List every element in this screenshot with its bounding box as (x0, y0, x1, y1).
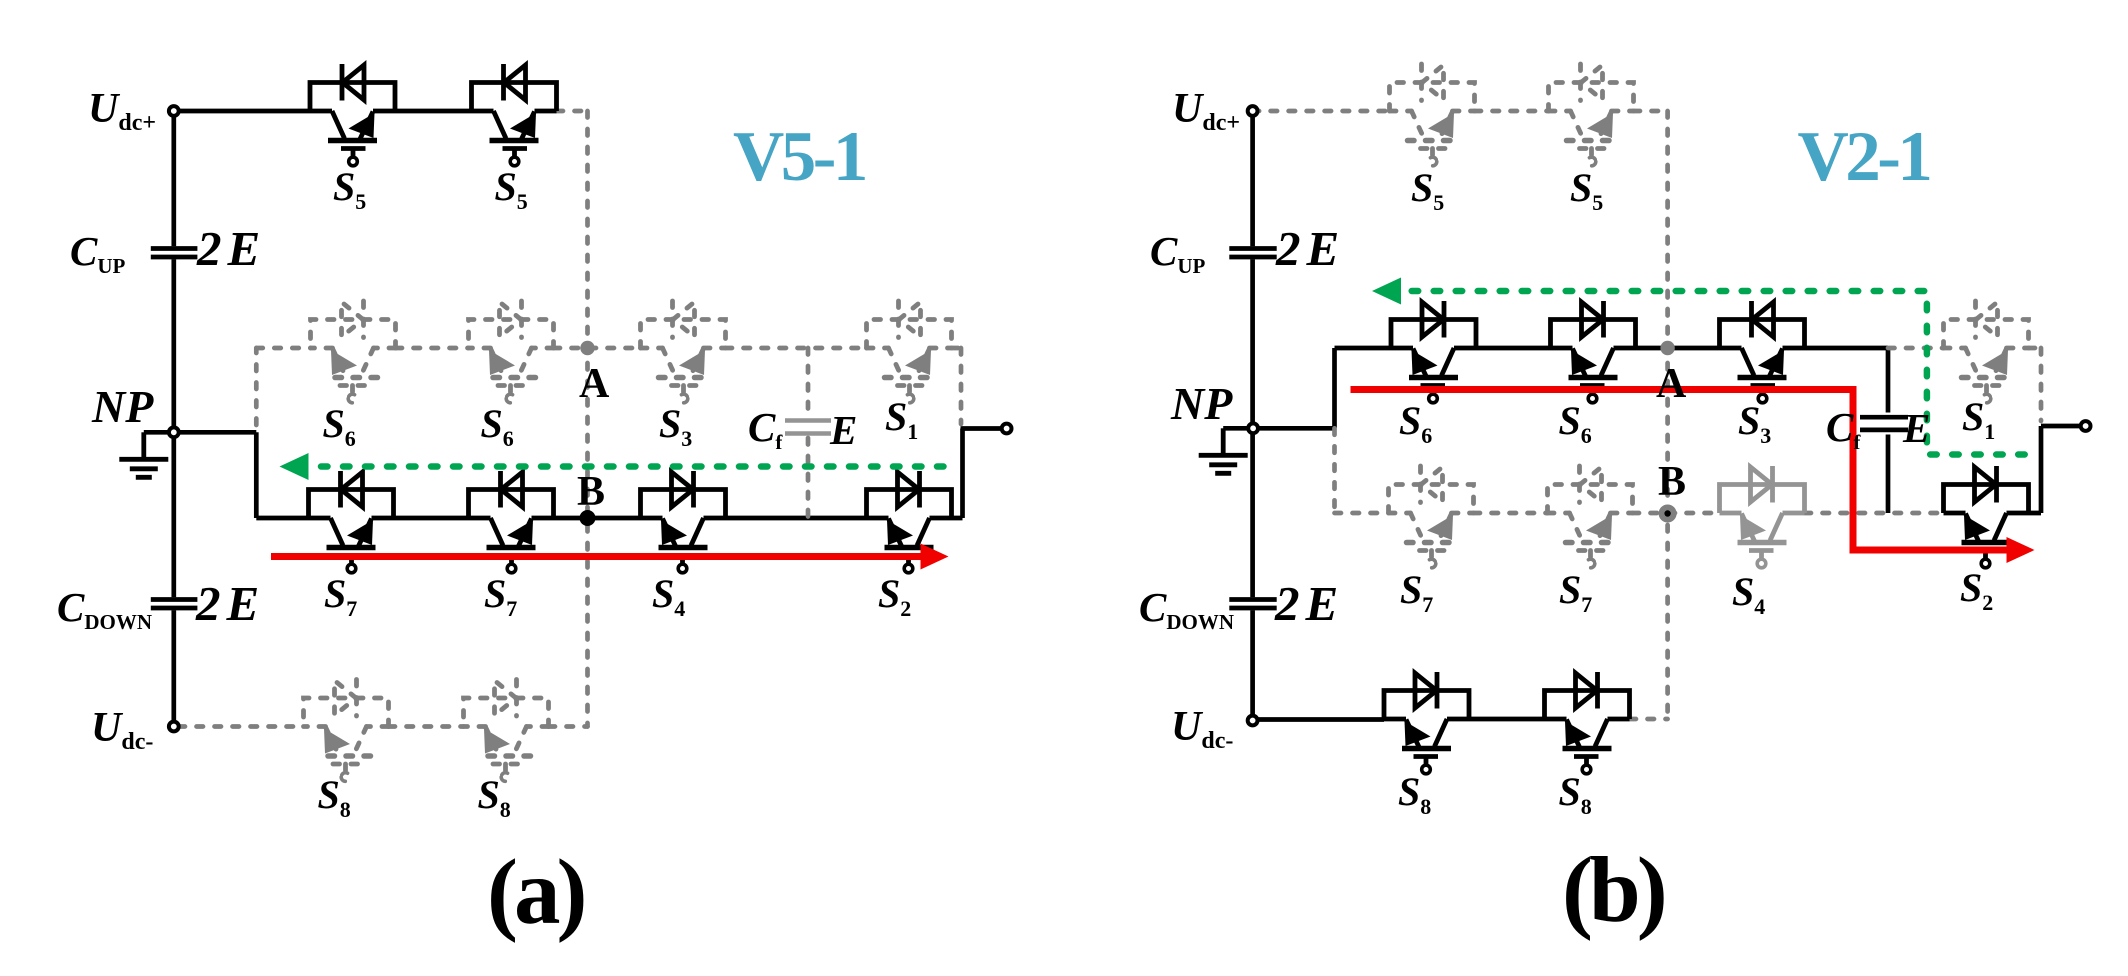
IGBT S8 #2 (a) (464, 680, 549, 782)
wire: bottom solid rail (b) (1253, 717, 1545, 722)
IGBT S6 #2 (a) (469, 301, 554, 403)
wire: left DC bus (a) (171, 111, 176, 721)
wire: A-row dashed rail to S1 (b) (1888, 348, 2041, 421)
terminal NP (b) (1248, 423, 1258, 433)
node B (a) (580, 510, 596, 526)
IGBT S5 #1 (b) (1390, 64, 1475, 166)
terminal Udc- (a) (169, 722, 179, 732)
IGBT S7 #1 (a) (309, 471, 394, 573)
capacitor C_UP (a) 2E (151, 249, 198, 258)
IGBT S8 #1 (a) (304, 680, 389, 782)
wire: A-row solid rail (b) (1335, 346, 1889, 351)
IGBT S7 #1 (b) (1389, 466, 1474, 568)
wire: NP node to ground stub and to riser (a) (144, 432, 256, 518)
svg-text:2E: 2E (1275, 221, 1345, 276)
capacitor C_UP (b) 2E (1229, 249, 1276, 258)
wire: top dashed rail (b) (1253, 109, 1668, 114)
capacitor C_DOWN (a) 2E (151, 600, 198, 609)
terminal output (b) (2081, 421, 2091, 431)
terminal output (a) (1002, 424, 1012, 434)
svg-text:(b): (b) (1562, 839, 1664, 942)
terminal Udc- (b) (1248, 716, 1258, 726)
IGBT S7 #2 (b) (1548, 466, 1633, 568)
wire: bottom dashed link to column (b) (1630, 717, 1668, 722)
IGBT S8 #2 (b) (1545, 672, 1630, 774)
svg-text:V2-1: V2-1 (1798, 118, 1930, 196)
IGBT S5 #2 (b) (1549, 64, 1634, 166)
svg-text:B: B (577, 469, 605, 515)
IGBT S1 (a) (867, 301, 952, 403)
IGBT S2 (a) (867, 471, 952, 573)
wire: output corner to terminal (a) (961, 429, 1002, 519)
IGBT S5 #1 (a) (310, 64, 395, 166)
ground symbol (b) (1199, 428, 1248, 473)
IGBT S8 #1 (b) (1384, 672, 1469, 774)
IGBT S3 (b) (1720, 301, 1805, 403)
capacitor C_f branch dashed wire (a) (806, 348, 811, 518)
wire: bottom dashed rail (a) (179, 724, 588, 729)
IGBT S3 (a) (641, 301, 726, 403)
svg-text:2E: 2E (196, 221, 266, 276)
IGBT S6 #1 (b) (1391, 301, 1476, 403)
wire: A-row dashed rail (a) (256, 346, 961, 351)
IGBT S1 (b) (1944, 301, 2029, 403)
wire: B-row solid rail (a) (256, 516, 962, 521)
svg-text:E: E (829, 407, 857, 453)
IGBT S4 (a) (641, 471, 726, 573)
svg-text:B: B (1658, 459, 1686, 505)
svg-text:NP: NP (1170, 378, 1233, 429)
svg-text:A: A (579, 361, 610, 407)
node A (a) (580, 341, 594, 355)
wire: left DC bus (b) (1250, 111, 1255, 716)
ground symbol (a) (119, 432, 168, 477)
IGBT S7 #2 (a) (469, 471, 554, 573)
green current path arrow (b) (1372, 278, 2025, 455)
IGBT S2 (b) (1944, 466, 2029, 568)
red current path arrow (b) (1351, 390, 2035, 564)
wire: NP to ground and riser (b) (1223, 348, 1334, 428)
wire: dashed link after S5#2 and center column (a) (557, 111, 588, 727)
terminal Udc+ (b) (1248, 106, 1258, 116)
svg-text:(a): (a) (487, 841, 583, 944)
wire: dashed riser A-rail to output wire (a) (959, 348, 964, 424)
wire: top rail from Udc+ to S5 (a) (174, 109, 472, 114)
svg-text:NP: NP (91, 381, 154, 432)
wire: center dashed column through A and B (b) (1665, 111, 1670, 719)
wire: dashed riser NP to A-rail (a) (254, 348, 259, 425)
svg-text:V5-1: V5-1 (733, 118, 865, 196)
capacitor C_f plates (b) (1860, 417, 1908, 430)
wire: S2 rail to output corner (b) (2029, 426, 2082, 513)
IGBT S4 (b) (1720, 466, 1805, 568)
svg-text:E: E (1902, 405, 1930, 451)
red current path arrow (a) (271, 544, 949, 570)
wire: B-row dashed rail (b) (1335, 428, 1944, 513)
capacitor C_DOWN (b) 2E (1229, 600, 1276, 609)
terminal Udc+ (a) (169, 106, 179, 116)
svg-text:A: A (1656, 361, 1687, 407)
capacitor C_f branch wire (b) (1886, 348, 1891, 513)
IGBT S6 #1 (a) (311, 301, 396, 403)
green current path arrow (a) (280, 453, 944, 480)
IGBT S6 #2 (b) (1551, 301, 1636, 403)
capacitor C_f plates (a) (785, 421, 831, 434)
svg-text:2E: 2E (1274, 576, 1344, 631)
IGBT S5 #2 (a) (472, 64, 557, 166)
terminal NP (a) (169, 427, 179, 437)
node B (b) (1659, 505, 1677, 523)
node A (b) (1660, 341, 1674, 355)
svg-text:2E: 2E (195, 576, 265, 631)
